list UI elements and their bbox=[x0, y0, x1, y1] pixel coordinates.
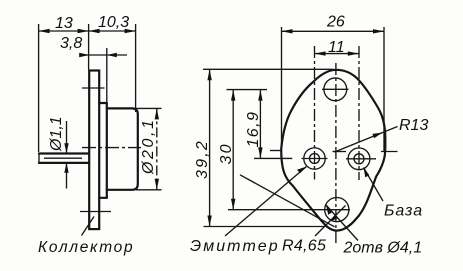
arrow 10,3 right bbox=[125, 29, 136, 33]
R4,65 leader bbox=[315, 206, 346, 237]
extension line 39,2 bottom bbox=[204, 226, 326, 228]
arrow 39,2 bottom bbox=[207, 216, 211, 227]
dimension line dia1,1 lower bbox=[66, 164, 68, 189]
dimension line 13 bbox=[39, 30, 89, 32]
arrow dia20,1 up bbox=[155, 108, 159, 119]
svg-text:3,8: 3,8 bbox=[60, 35, 82, 52]
svg-text:30: 30 bbox=[218, 142, 235, 164]
left pin hole inner bbox=[310, 154, 320, 164]
svg-text:39,2: 39,2 bbox=[194, 139, 211, 179]
centerline bottom hole (side view) bbox=[80, 211, 111, 213]
extension line flange left face bbox=[88, 24, 90, 70]
svg-text:2отв Ø4,1: 2отв Ø4,1 bbox=[343, 240, 423, 257]
svg-text:11: 11 bbox=[328, 39, 345, 56]
can (cap) outline bbox=[107, 108, 138, 189]
extension line 16,9 bottom bbox=[254, 157, 292, 159]
2otv long diagonal bbox=[240, 175, 335, 227]
flange plate outline bbox=[89, 71, 99, 230]
arrow 3,8 right bbox=[107, 53, 117, 57]
pin (lead) top line bbox=[39, 152, 89, 154]
R4,65 arrow bbox=[329, 215, 338, 222]
bottom hole h-centerline bbox=[228, 209, 350, 211]
left pin hole outer bbox=[304, 148, 325, 169]
extension line 26 right bbox=[383, 27, 385, 152]
horizontal mid centerline seg 2 bbox=[333, 151, 347, 153]
base arrow bbox=[364, 168, 370, 178]
svg-text:Ø1,1: Ø1,1 bbox=[48, 116, 65, 152]
top hole h-centerline bbox=[322, 88, 349, 90]
extension line can right bbox=[135, 24, 137, 112]
arrow 11 right bbox=[348, 51, 359, 55]
emitter leader bbox=[225, 167, 307, 237]
right pin hole v-centerline bbox=[358, 46, 360, 180]
dimension line 30 bbox=[232, 90, 234, 210]
svg-text:Коллектор: Коллектор bbox=[38, 239, 134, 256]
left pin hole v-centerline bbox=[314, 46, 316, 180]
arrow 11 left bbox=[315, 51, 326, 55]
dimension line dia 20,1 bbox=[156, 108, 158, 189]
right pin hole outer bbox=[348, 148, 370, 170]
right pin hole h-centerline bbox=[346, 158, 376, 160]
svg-text:10,3: 10,3 bbox=[98, 14, 129, 31]
arrow 13 right bbox=[78, 29, 89, 33]
R13 leader bbox=[335, 127, 398, 153]
svg-text:13: 13 bbox=[55, 15, 73, 32]
bottom mounting hole bbox=[325, 198, 349, 222]
svg-text:R13: R13 bbox=[399, 117, 428, 134]
svg-text:База: База bbox=[384, 203, 423, 220]
pin mid line bbox=[44, 157, 82, 159]
svg-text:Ø20,1: Ø20,1 bbox=[140, 117, 157, 175]
2otv arrow bbox=[326, 205, 332, 215]
base leader bbox=[364, 168, 384, 202]
arrow dia1,1 down bbox=[64, 143, 68, 153]
can bottom edge extension bbox=[136, 189, 162, 191]
dimension line 26 bbox=[282, 30, 385, 32]
arrow 16,9 top bbox=[258, 90, 262, 101]
diamond flange outline bbox=[281, 70, 385, 231]
brim right edge bbox=[106, 103, 108, 198]
kollektor leader bbox=[82, 217, 95, 236]
extension line brim right bbox=[106, 48, 108, 102]
arrow 16,9 bottom bbox=[258, 147, 262, 158]
arrow 26 right bbox=[373, 29, 384, 33]
extension line 30 top bbox=[227, 89, 268, 91]
main vertical axis centerline bbox=[335, 63, 337, 245]
arrow 13 left bbox=[39, 29, 50, 33]
R13 arrow bbox=[372, 133, 382, 139]
right pin hole inner bbox=[354, 154, 364, 164]
brim bottom edge bbox=[99, 197, 107, 199]
arrow 10,3 left bbox=[89, 29, 100, 33]
extension line 39,2 top bbox=[203, 68, 334, 70]
dimension line 16,9 bbox=[259, 90, 261, 159]
svg-text:R4,65: R4,65 bbox=[282, 238, 326, 255]
dimension line 3,8 bbox=[82, 54, 127, 56]
centerline top hole (side view) bbox=[82, 87, 105, 89]
pin end cap bbox=[38, 154, 40, 163]
horizontal mid centerline seg 3 bbox=[381, 151, 398, 153]
emitter arrow bbox=[297, 167, 307, 174]
arrow 3,8 left bbox=[79, 53, 89, 57]
svg-text:Эмиттер: Эмиттер bbox=[190, 238, 280, 255]
svg-text:26: 26 bbox=[326, 14, 345, 31]
centerline can axis (side view) bbox=[82, 147, 141, 149]
arrow dia1,1 up bbox=[64, 163, 68, 173]
2otv leader bbox=[326, 205, 358, 241]
brim top edge bbox=[99, 102, 107, 104]
can top edge extension bbox=[136, 107, 162, 109]
extension line pin tip bbox=[38, 24, 40, 152]
arrow 30 bottom bbox=[231, 199, 235, 210]
dimension line 10,3 bbox=[89, 30, 136, 32]
arrow 30 top bbox=[231, 90, 235, 101]
arrow 39,2 top bbox=[207, 69, 211, 80]
extension line 26 left bbox=[281, 27, 283, 148]
dimension line 39,2 bbox=[209, 69, 211, 226]
arrow dia20,1 down bbox=[155, 179, 159, 190]
top mounting hole bbox=[324, 78, 347, 101]
dimension line dia1,1 upper bbox=[66, 121, 68, 153]
left pin hole h-centerline bbox=[302, 158, 328, 160]
dimension line 11 bbox=[315, 53, 359, 55]
horizontal mid centerline seg 1 bbox=[270, 150, 282, 152]
svg-text:16,9: 16,9 bbox=[245, 111, 262, 148]
pin bottom line bbox=[39, 162, 89, 164]
arrow 26 left bbox=[282, 29, 293, 33]
